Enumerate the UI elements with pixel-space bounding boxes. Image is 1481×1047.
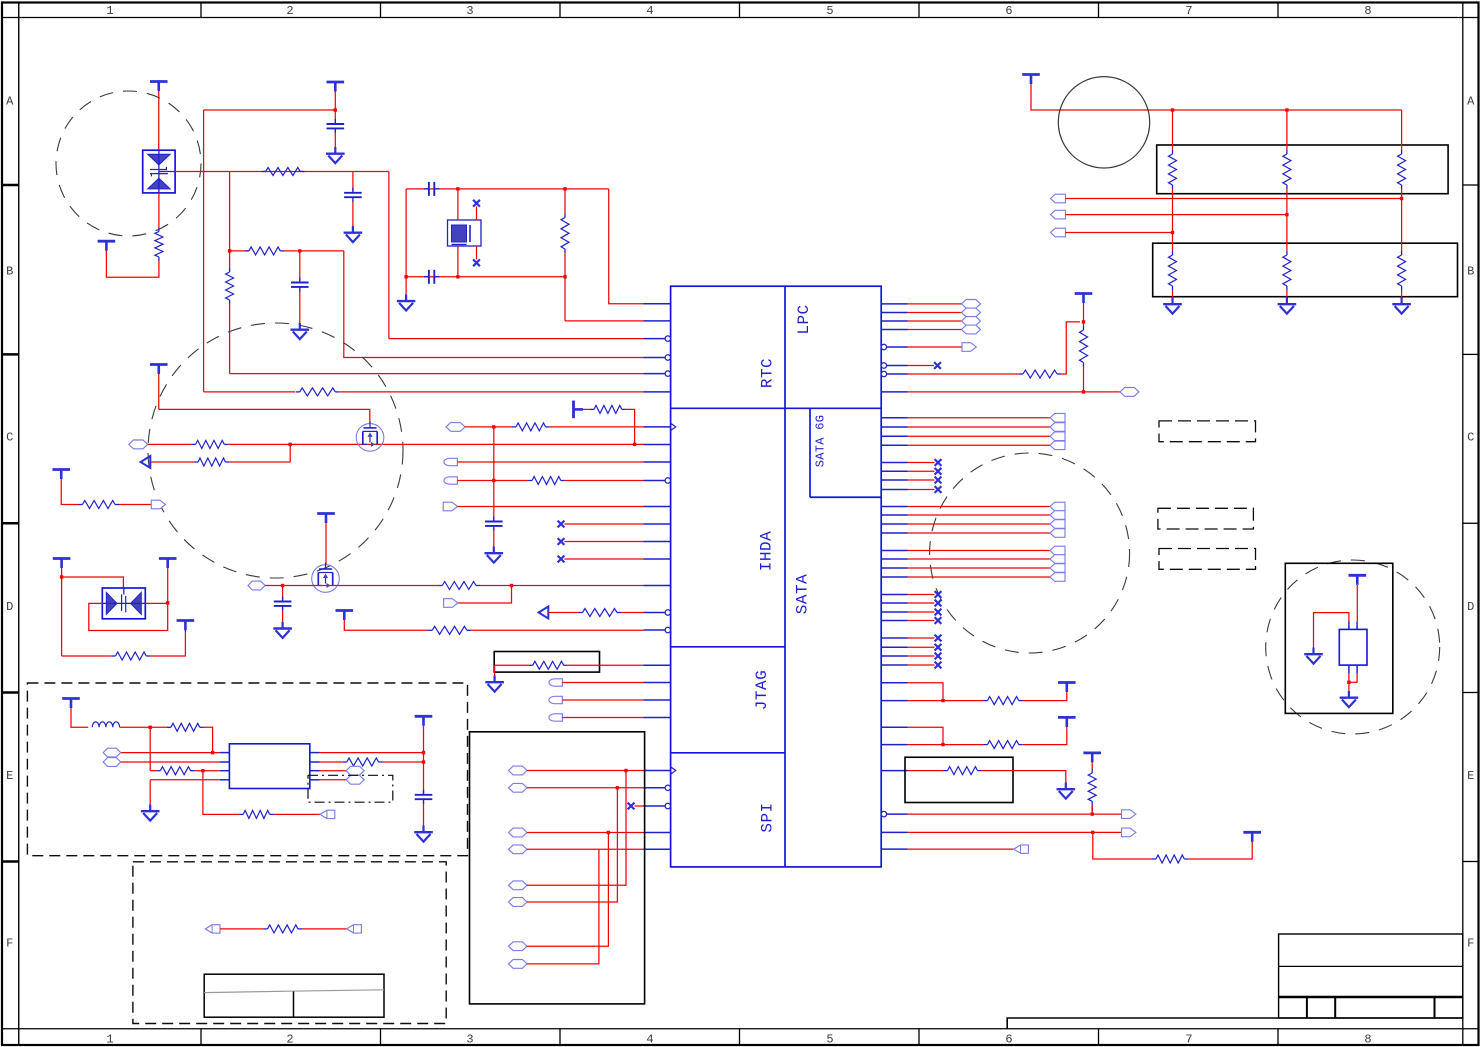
port MEM2 [1051, 210, 1066, 219]
wire tap down [458, 586, 512, 604]
svg-text:F: F [1467, 937, 1474, 951]
wire C7 to ground [282, 610, 284, 622]
power VCC6 [574, 401, 584, 419]
IC section labels [753, 304, 828, 832]
no-connect pin [558, 538, 565, 545]
wire port to R22 [220, 928, 264, 930]
IC U2 regulator [229, 744, 309, 789]
ground C3 [291, 323, 310, 339]
no-connect pin [935, 635, 942, 642]
wire Q3 bottom tie [1349, 674, 1357, 683]
dash-dot sub box [308, 775, 393, 802]
svg-text:SPI: SPI [759, 802, 777, 832]
wire R15 to IC pin [621, 612, 644, 614]
wire to IC pin [457, 461, 643, 463]
svg-text:A: A [6, 95, 14, 109]
port LPC [962, 325, 981, 334]
svg-text:3: 3 [466, 4, 473, 18]
wire SPI6 riser [527, 788, 617, 902]
no-connect pin [935, 477, 942, 484]
wire to C7 [282, 586, 284, 601]
ground crystal [397, 294, 416, 310]
power VCC13 [415, 716, 433, 726]
svg-text:C: C [1467, 431, 1474, 445]
no-connect pin [934, 362, 941, 369]
wire RN2 pin3 bottom [1401, 290, 1403, 298]
wire port to U2 pin2 [121, 761, 220, 763]
port SATA [1050, 546, 1065, 555]
ground RN2-2 [1278, 298, 1297, 314]
wire VCC13 rail [423, 726, 425, 794]
junction pin1 [211, 751, 214, 754]
power VCC15 [1075, 294, 1093, 304]
wire R5 bottom to pin [564, 253, 566, 321]
wire nc stub [908, 620, 935, 622]
wire VCC6 to R10 [583, 408, 590, 410]
resistor R5 [561, 218, 569, 250]
wire D2 loop [89, 603, 168, 631]
wire R4 to corner [284, 250, 344, 252]
resistor R17 [533, 661, 564, 669]
svg-text:5: 5 [826, 4, 833, 18]
no-connect pin [628, 803, 635, 810]
wire MEM3 [1066, 232, 1173, 234]
wire U2 pin to port [320, 770, 347, 772]
svg-text:E: E [1467, 769, 1474, 783]
resistor R22 [268, 925, 299, 933]
wire node down [149, 727, 151, 770]
wire SATA [908, 550, 1051, 552]
no-connect pin [935, 459, 942, 466]
svg-text:LPC: LPC [795, 304, 813, 334]
wire R3 to pin [229, 304, 231, 374]
dashed module box F [133, 862, 446, 1024]
resistor R14 [442, 582, 476, 590]
resistor RN2-2 [1283, 255, 1291, 286]
port SATA [1050, 529, 1065, 538]
resistor R4 [249, 247, 280, 255]
wire L1 to node [120, 726, 151, 728]
TVS diode D2 [102, 588, 145, 619]
port SATA [1050, 564, 1065, 573]
junction SPI2 [616, 786, 619, 789]
wire nc stub [908, 611, 935, 613]
wire SATA [908, 532, 1051, 534]
junction spi2 [1091, 831, 1094, 834]
wire RN1 pin3 bottom [1401, 189, 1403, 199]
ground Q3b [1340, 691, 1359, 707]
wire to port [908, 346, 963, 348]
junction MEM2 [1285, 213, 1288, 216]
box resistor pack RN1 [1157, 145, 1448, 194]
TVS diode D1 [143, 150, 175, 193]
wire to R23 [908, 373, 1020, 375]
wire SPI8 riser [527, 849, 599, 964]
junction left rail [404, 275, 407, 278]
junction crystal top [456, 187, 459, 190]
U2 left pin stubs [220, 753, 320, 780]
wire nc stub [564, 523, 643, 525]
resistor R15 [583, 609, 618, 617]
junction R8 tie [289, 443, 292, 446]
wire LPC to port [908, 312, 962, 314]
port SATA6G [1050, 441, 1065, 450]
no-connect pin [935, 609, 942, 616]
wire left leg [405, 189, 407, 295]
resistor R27 [948, 767, 978, 775]
ground C8 [414, 826, 433, 842]
resistor R23 [1023, 370, 1057, 378]
wire spi2 branch [1093, 832, 1152, 859]
box series resistor group [494, 652, 599, 673]
wire spi3 [908, 848, 1014, 850]
power VCC12 [62, 699, 80, 709]
dashed module box E [27, 683, 467, 856]
port SATA6G [1050, 423, 1065, 432]
wire nc stub [634, 805, 643, 807]
wire R18 to pin1 net [204, 727, 213, 752]
wire to IC pin [389, 338, 644, 340]
IC left pins [644, 304, 676, 850]
circle annotation [1058, 77, 1149, 168]
port SPI8 [509, 960, 528, 969]
wire R6 to IC pin [339, 391, 643, 393]
svg-text:6: 6 [1005, 1033, 1012, 1047]
power VCC10 [317, 514, 335, 524]
svg-text:8: 8 [1364, 4, 1371, 18]
resistor R29 [1156, 855, 1184, 863]
port SPI7 [509, 942, 528, 951]
junction clk net [1082, 390, 1085, 393]
wire nc stub [908, 602, 935, 604]
junction MEM3 [1171, 231, 1174, 234]
wire SATA [908, 558, 1051, 560]
wire RN1 pin3 top [1401, 110, 1403, 150]
wire SPI5 riser [527, 771, 626, 886]
resistor R7 [196, 440, 225, 448]
wire R26 to VCC [1023, 727, 1067, 745]
junction SPI3 [607, 831, 610, 834]
power VCC3 [327, 82, 345, 92]
resistor R3 [226, 272, 234, 300]
wire jtag1 [908, 683, 944, 701]
wire to R27 [908, 770, 944, 772]
wire nc stub [908, 470, 935, 472]
dashed highlight circle 3 [930, 453, 1130, 653]
wire R22 to port [302, 928, 347, 930]
power VCC8 [159, 559, 177, 569]
wire VCC20 to Q3 [1356, 585, 1358, 621]
no-connect pin [935, 617, 942, 624]
junction D2 right [166, 601, 169, 604]
svg-text:4: 4 [646, 1033, 653, 1047]
wire C6 to ground [493, 530, 495, 546]
wire R23 loop up [1061, 322, 1080, 374]
wire to IC pin [565, 320, 644, 322]
power VCC1 [150, 82, 168, 92]
power VCC2 [98, 241, 116, 251]
wire VCC5 to R9 [61, 479, 78, 505]
junction vertical tie [492, 479, 495, 482]
wire RN1 pin2 bottom [1286, 189, 1288, 215]
wire port to R15 [549, 612, 579, 614]
wire VCC8 down [167, 568, 169, 603]
wire to IC pin [230, 373, 644, 375]
power VCC14 [1022, 75, 1040, 85]
port SATA [1050, 555, 1065, 564]
junction pin3 tap [201, 769, 204, 772]
wire VCC10 to Q2 [325, 523, 327, 565]
wire nc stub [908, 655, 935, 657]
port SATA6G [1050, 413, 1065, 422]
power VCC9 [177, 621, 195, 631]
box series resistor R27 [905, 757, 1013, 802]
svg-text:JTAG: JTAG [753, 670, 771, 710]
junction RN1a [1171, 108, 1174, 111]
wire to R6 [204, 391, 295, 393]
wire C3 to ground [299, 291, 301, 323]
wire U2 out1 [320, 752, 424, 754]
wire long to port [908, 391, 1121, 393]
wire SPI3 to IC [527, 832, 644, 834]
wire SATA6G [908, 426, 1051, 428]
wire D1 to R1 [158, 193, 160, 228]
port OUT1 [151, 500, 165, 509]
wire D2 right pin [145, 602, 167, 604]
port SPI_CLK [1122, 828, 1136, 837]
junction R5 top [563, 187, 566, 190]
ground R17 [485, 676, 504, 692]
wire VCC1 to D1 [158, 91, 160, 150]
wire SATA [908, 506, 1051, 508]
junction C6 tap [492, 425, 495, 428]
wire R29 to VCC [1188, 842, 1252, 860]
port HDA1 [446, 423, 465, 432]
wire branch down [229, 172, 231, 269]
wire jtag2 [908, 700, 984, 702]
port TP2 [347, 925, 362, 933]
resistor R28 [1088, 773, 1096, 801]
svg-text:4: 4 [646, 4, 653, 18]
resistor R25 [988, 697, 1019, 705]
wire to R19 [150, 770, 156, 772]
wire to IC pin [344, 251, 644, 358]
wire crystal bottom rail [406, 276, 565, 278]
port VOUT2 [346, 775, 364, 784]
wire VCC7 down [61, 568, 63, 656]
wire U2 pin4 gnd net [150, 779, 220, 781]
wire R19 to pin3 [195, 770, 220, 772]
capacitor C7 [274, 597, 292, 611]
wire R21 to node [383, 761, 424, 763]
wire spi2 [908, 831, 1122, 833]
junction sense tap [510, 584, 513, 587]
wire R8 right [229, 461, 290, 463]
no-connect Y1 pin3 [473, 200, 480, 207]
svg-text:2: 2 [286, 4, 293, 18]
svg-text:E: E [6, 769, 13, 783]
power VCC11 [336, 611, 354, 621]
wire R11 to IC pin [550, 426, 644, 428]
no-connect pin [935, 644, 942, 651]
port SERIRQ [962, 343, 976, 352]
wire to IC pin [609, 189, 644, 304]
wire U2 out2 to R21 [320, 761, 343, 763]
wire port to R8 [151, 461, 194, 463]
wire to D2 top [62, 577, 124, 588]
wire R28 to pin [1091, 805, 1093, 814]
resistor R8 [198, 458, 225, 466]
box SPI header [470, 732, 645, 1004]
port JTAG2 [549, 696, 563, 703]
wire to IC pin [458, 506, 644, 508]
port VIN1 [103, 748, 121, 757]
wire R8 up [289, 444, 291, 462]
svg-text:B: B [6, 265, 13, 279]
junction VCC15 [1082, 320, 1085, 323]
port SATA [1050, 502, 1065, 511]
transistor Q3 [1339, 629, 1367, 665]
junction jtag1 [941, 699, 944, 702]
dashed label box 3 [1159, 549, 1256, 570]
wire LPC to port [908, 320, 962, 322]
port SPI1 [509, 766, 528, 775]
wire RN2 pin1 bottom [1172, 290, 1174, 298]
ground RN2-1 [1163, 298, 1182, 314]
wire Y1 nc stub [476, 246, 478, 260]
wire R25 to VCC [1023, 692, 1067, 701]
wire to C2 [352, 172, 354, 192]
port TP1 [205, 925, 220, 933]
junction SPI1 [624, 769, 627, 772]
wire Q3 to ground2 [1348, 674, 1350, 691]
wire to R12 [457, 480, 528, 482]
junction D2 top feed [60, 575, 63, 578]
port HDA3 [444, 477, 458, 484]
no-connect pin [935, 591, 942, 598]
wire R5 top lead [564, 189, 566, 214]
resistor R26 [988, 741, 1019, 749]
wire SATA [908, 567, 1051, 569]
transistor Q1 [356, 421, 384, 451]
resistor R19 [160, 767, 190, 775]
ground C6 [485, 547, 504, 563]
junction C7 tap [281, 584, 284, 587]
wire nc stub [908, 664, 935, 666]
port LPC [962, 300, 981, 309]
wire RN1 pin1 top [1172, 110, 1174, 150]
wire SPI7 riser [527, 833, 608, 947]
wire VCC12 to L1 [71, 708, 88, 727]
note table [204, 974, 384, 1017]
svg-text:6: 6 [1005, 4, 1012, 18]
wire port to U2 pin1 [121, 752, 220, 754]
wire jtag4 [908, 744, 984, 746]
wire rail down [388, 172, 390, 339]
junction C3 tap [298, 249, 301, 252]
port VIN2 [103, 758, 121, 767]
junction jtag3 [941, 743, 944, 746]
wire nc stub [908, 637, 935, 639]
wire to ground [494, 665, 496, 675]
dashed highlight circle 1 [56, 91, 201, 236]
svg-text:F: F [6, 937, 13, 951]
port IN1 [129, 440, 148, 449]
resistor R18 [171, 723, 200, 731]
svg-text:1: 1 [106, 4, 113, 18]
wire RN2 pin2 bottom [1286, 290, 1288, 298]
svg-text:SATA: SATA [794, 574, 812, 614]
capacitor C4 [424, 182, 439, 196]
svg-text:IHDA: IHDA [758, 531, 776, 571]
wire MEM1 [1066, 198, 1402, 200]
wire RN2 pin1 top [1172, 233, 1174, 252]
svg-text:2: 2 [286, 1033, 293, 1047]
port EN1 [141, 456, 151, 468]
wire VCC rail [1031, 84, 1402, 110]
wire MEM2 [1066, 214, 1287, 216]
power VCC18 [1083, 753, 1101, 763]
wire SPI1 to IC [527, 770, 644, 772]
transistor Q2 [312, 563, 340, 593]
port SATA [1050, 511, 1065, 520]
wire vertical node A [203, 110, 205, 392]
wire tap to R20 [203, 771, 239, 815]
wire SATA6G [908, 435, 1051, 437]
resistor R10 [594, 405, 622, 413]
wire RN1 pin1 bottom [1172, 189, 1174, 233]
wire VCC11 to R16 [344, 620, 428, 630]
wire to C1 [334, 110, 336, 123]
svg-text:7: 7 [1185, 1033, 1192, 1047]
port HDA4 [443, 502, 457, 511]
junction Q3 bottom [1347, 681, 1350, 684]
port SATA6G [1050, 432, 1065, 441]
power VCC7 [53, 559, 71, 569]
port JTAG1 [549, 679, 563, 686]
crystal Y1 [448, 220, 482, 246]
wire R24 down [1083, 367, 1085, 392]
wire nc stub [908, 646, 935, 648]
port PWR1 [248, 581, 265, 590]
resistor R16 [432, 626, 467, 634]
wire node A [204, 109, 336, 111]
port VOUT1 [346, 766, 364, 775]
wire to R4 [230, 250, 249, 252]
wire node to R18 [150, 726, 167, 728]
wire nc stub [564, 541, 643, 543]
wire LPC to port [908, 329, 962, 331]
wire through Q2 [265, 585, 438, 587]
ground C1 [326, 147, 345, 163]
wire Y1 nc stub [476, 207, 478, 221]
wire to R11 [465, 426, 512, 428]
wire crystal top rail [406, 188, 609, 190]
svg-text:C: C [6, 431, 13, 445]
wire R13 to VCC9 [150, 631, 185, 656]
no-connect Y1 pin4 [473, 259, 480, 266]
no-connect pin [558, 556, 565, 563]
title block [1007, 934, 1463, 1029]
no-connect pin [558, 521, 565, 528]
wire nc stub [908, 479, 935, 481]
wire box left [495, 664, 529, 666]
wire to R24 [1083, 322, 1085, 326]
wire C2 to ground [352, 202, 354, 227]
ground C2 [344, 226, 363, 242]
resistor R9 [83, 501, 116, 509]
svg-text:1: 1 [106, 1033, 113, 1047]
